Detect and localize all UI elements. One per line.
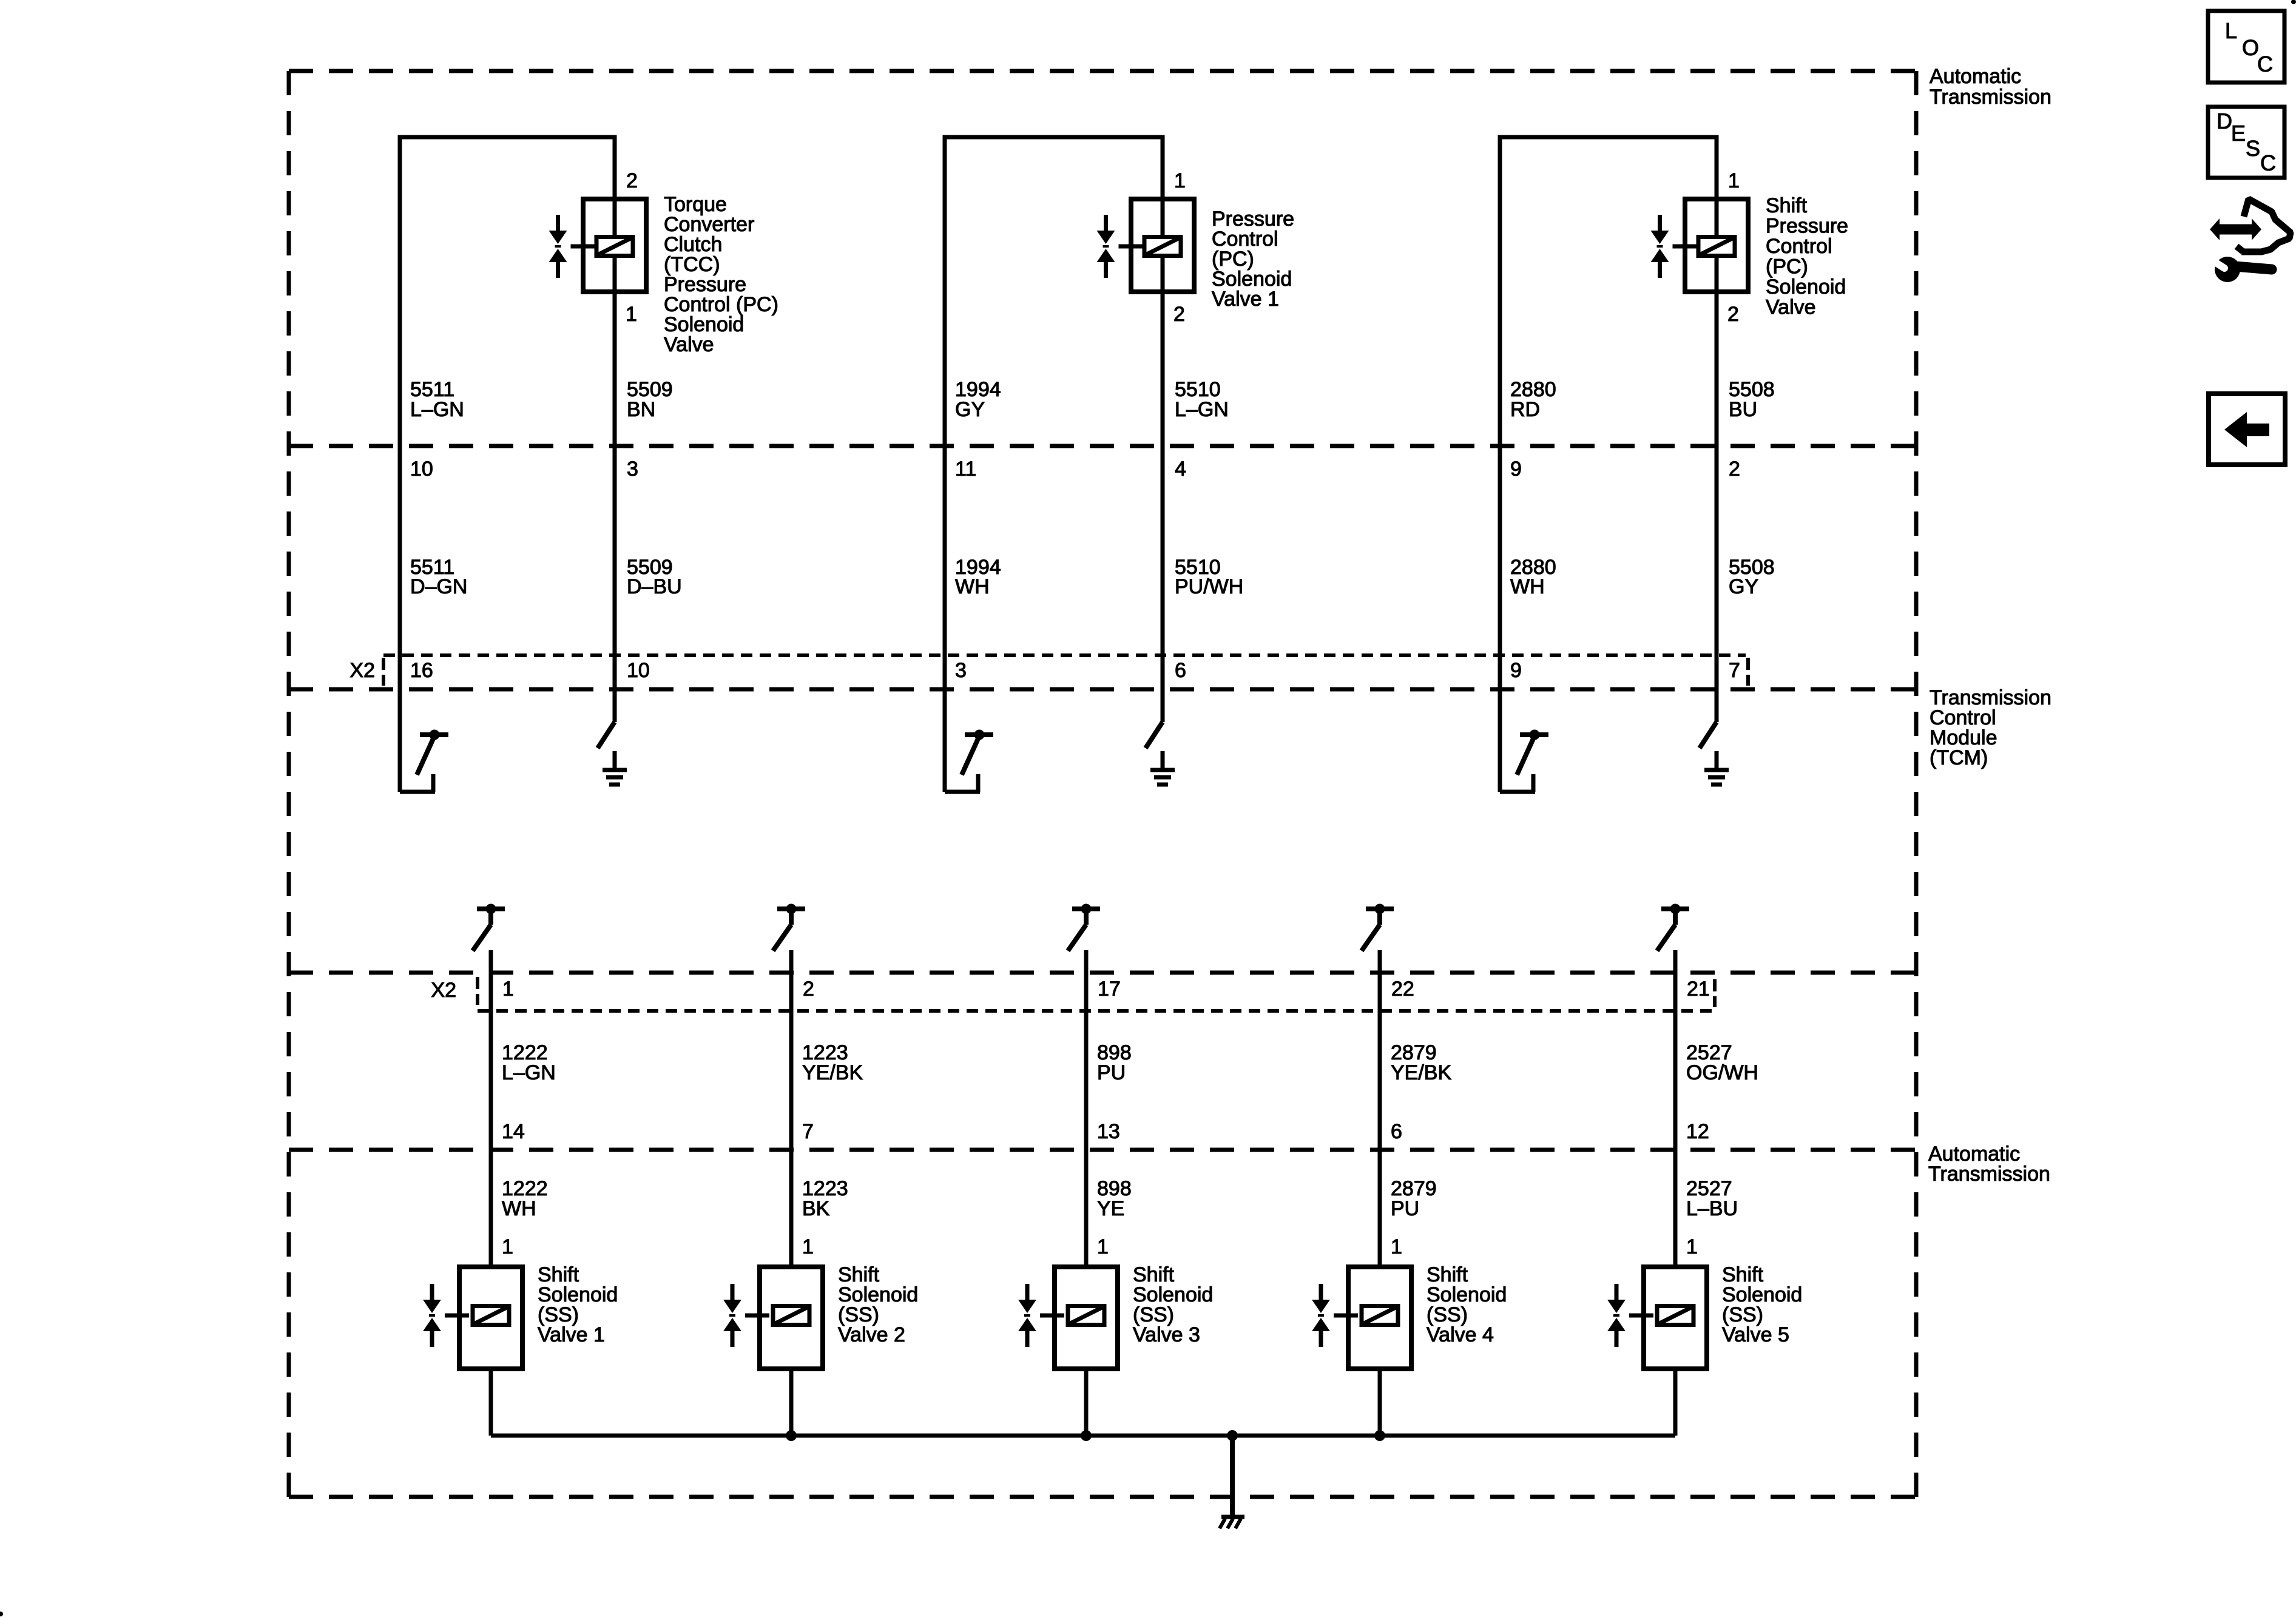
svg-text:1: 1 bbox=[802, 1235, 814, 1258]
svg-text:4: 4 bbox=[1175, 457, 1186, 481]
svg-text:7: 7 bbox=[1729, 659, 1740, 682]
svg-text:Pressure: Pressure bbox=[1766, 215, 1848, 238]
svg-text:PU: PU bbox=[1391, 1197, 1419, 1220]
svg-text:Valve 2: Valve 2 bbox=[838, 1323, 905, 1346]
svg-text:6: 6 bbox=[1391, 1120, 1402, 1143]
svg-text:(TCM): (TCM) bbox=[1930, 746, 1988, 769]
svg-text:Valve 1: Valve 1 bbox=[1212, 288, 1279, 311]
svg-text:WH: WH bbox=[1510, 575, 1545, 598]
svg-text:WH: WH bbox=[502, 1197, 536, 1220]
svg-text:Transmission: Transmission bbox=[1928, 1163, 2050, 1186]
svg-text:L–GN: L–GN bbox=[502, 1061, 556, 1084]
svg-text:1: 1 bbox=[1391, 1235, 1402, 1258]
svg-text:RD: RD bbox=[1510, 398, 1540, 421]
svg-text:10: 10 bbox=[410, 457, 433, 481]
svg-text:Valve: Valve bbox=[664, 333, 714, 356]
svg-text:D: D bbox=[2217, 109, 2232, 133]
svg-text:3: 3 bbox=[955, 659, 967, 682]
svg-text:1: 1 bbox=[1097, 1235, 1109, 1258]
svg-text:2: 2 bbox=[626, 169, 638, 192]
svg-text:O: O bbox=[2242, 35, 2259, 60]
svg-text:Valve 4: Valve 4 bbox=[1427, 1323, 1494, 1346]
svg-text:Automatic: Automatic bbox=[1930, 65, 2021, 88]
svg-text:Valve: Valve bbox=[1766, 296, 1816, 319]
svg-text:22: 22 bbox=[1391, 977, 1414, 1001]
svg-text:Valve 1: Valve 1 bbox=[538, 1323, 605, 1346]
svg-text:PU/WH: PU/WH bbox=[1175, 575, 1243, 598]
svg-text:C: C bbox=[2257, 52, 2273, 76]
svg-text:Solenoid: Solenoid bbox=[1766, 275, 1846, 299]
svg-text:X2: X2 bbox=[349, 659, 375, 682]
svg-text:2: 2 bbox=[1729, 457, 1740, 481]
svg-text:21: 21 bbox=[1687, 977, 1710, 1001]
svg-text:YE/BK: YE/BK bbox=[1391, 1061, 1451, 1084]
svg-text:Valve 5: Valve 5 bbox=[1722, 1323, 1789, 1346]
svg-text:E: E bbox=[2231, 121, 2246, 146]
svg-text:D–GN: D–GN bbox=[410, 575, 467, 598]
svg-text:L: L bbox=[2225, 18, 2237, 43]
svg-text:12: 12 bbox=[1686, 1120, 1709, 1143]
svg-text:GY: GY bbox=[955, 398, 985, 421]
svg-text:1: 1 bbox=[1686, 1235, 1698, 1258]
svg-text:7: 7 bbox=[802, 1120, 814, 1143]
svg-text:17: 17 bbox=[1098, 977, 1121, 1001]
svg-text:9: 9 bbox=[1510, 457, 1522, 481]
svg-text:2: 2 bbox=[1727, 303, 1739, 326]
svg-text:10: 10 bbox=[627, 659, 650, 682]
svg-text:9: 9 bbox=[1510, 659, 1522, 682]
svg-text:L–GN: L–GN bbox=[410, 398, 464, 421]
svg-text:6: 6 bbox=[1175, 659, 1186, 682]
svg-text:WH: WH bbox=[955, 575, 990, 598]
svg-text:D–BU: D–BU bbox=[627, 575, 682, 598]
svg-text:Shift: Shift bbox=[1766, 194, 1808, 217]
svg-text:13: 13 bbox=[1097, 1120, 1120, 1143]
svg-text:YE/BK: YE/BK bbox=[802, 1061, 863, 1084]
svg-text:C: C bbox=[2260, 150, 2276, 175]
svg-text:Valve 3: Valve 3 bbox=[1133, 1323, 1200, 1346]
svg-text:2: 2 bbox=[803, 977, 814, 1001]
svg-text:BN: BN bbox=[627, 398, 655, 421]
svg-text:1: 1 bbox=[1174, 169, 1186, 192]
svg-text:BK: BK bbox=[802, 1197, 830, 1220]
svg-text:S: S bbox=[2246, 136, 2260, 161]
svg-text:1: 1 bbox=[626, 303, 637, 326]
svg-text:2: 2 bbox=[1173, 303, 1185, 326]
svg-text:PU: PU bbox=[1097, 1061, 1126, 1084]
svg-text:14: 14 bbox=[502, 1120, 525, 1143]
svg-text:X2: X2 bbox=[431, 979, 456, 1002]
svg-text:16: 16 bbox=[410, 659, 433, 682]
svg-text:GY: GY bbox=[1729, 575, 1758, 598]
svg-text:BU: BU bbox=[1729, 398, 1757, 421]
svg-text:1: 1 bbox=[502, 1235, 513, 1258]
svg-text:(PC): (PC) bbox=[1766, 255, 1808, 279]
svg-text:11: 11 bbox=[955, 457, 976, 481]
svg-text:L–BU: L–BU bbox=[1686, 1197, 1738, 1220]
svg-text:YE: YE bbox=[1097, 1197, 1124, 1220]
svg-text:1: 1 bbox=[1728, 169, 1740, 192]
svg-text:L–GN: L–GN bbox=[1175, 398, 1229, 421]
svg-text:OG/WH: OG/WH bbox=[1686, 1061, 1758, 1084]
svg-text:1: 1 bbox=[502, 977, 514, 1001]
svg-text:Transmission: Transmission bbox=[1930, 86, 2051, 109]
svg-text:Control: Control bbox=[1766, 235, 1832, 258]
svg-text:3: 3 bbox=[627, 457, 638, 481]
